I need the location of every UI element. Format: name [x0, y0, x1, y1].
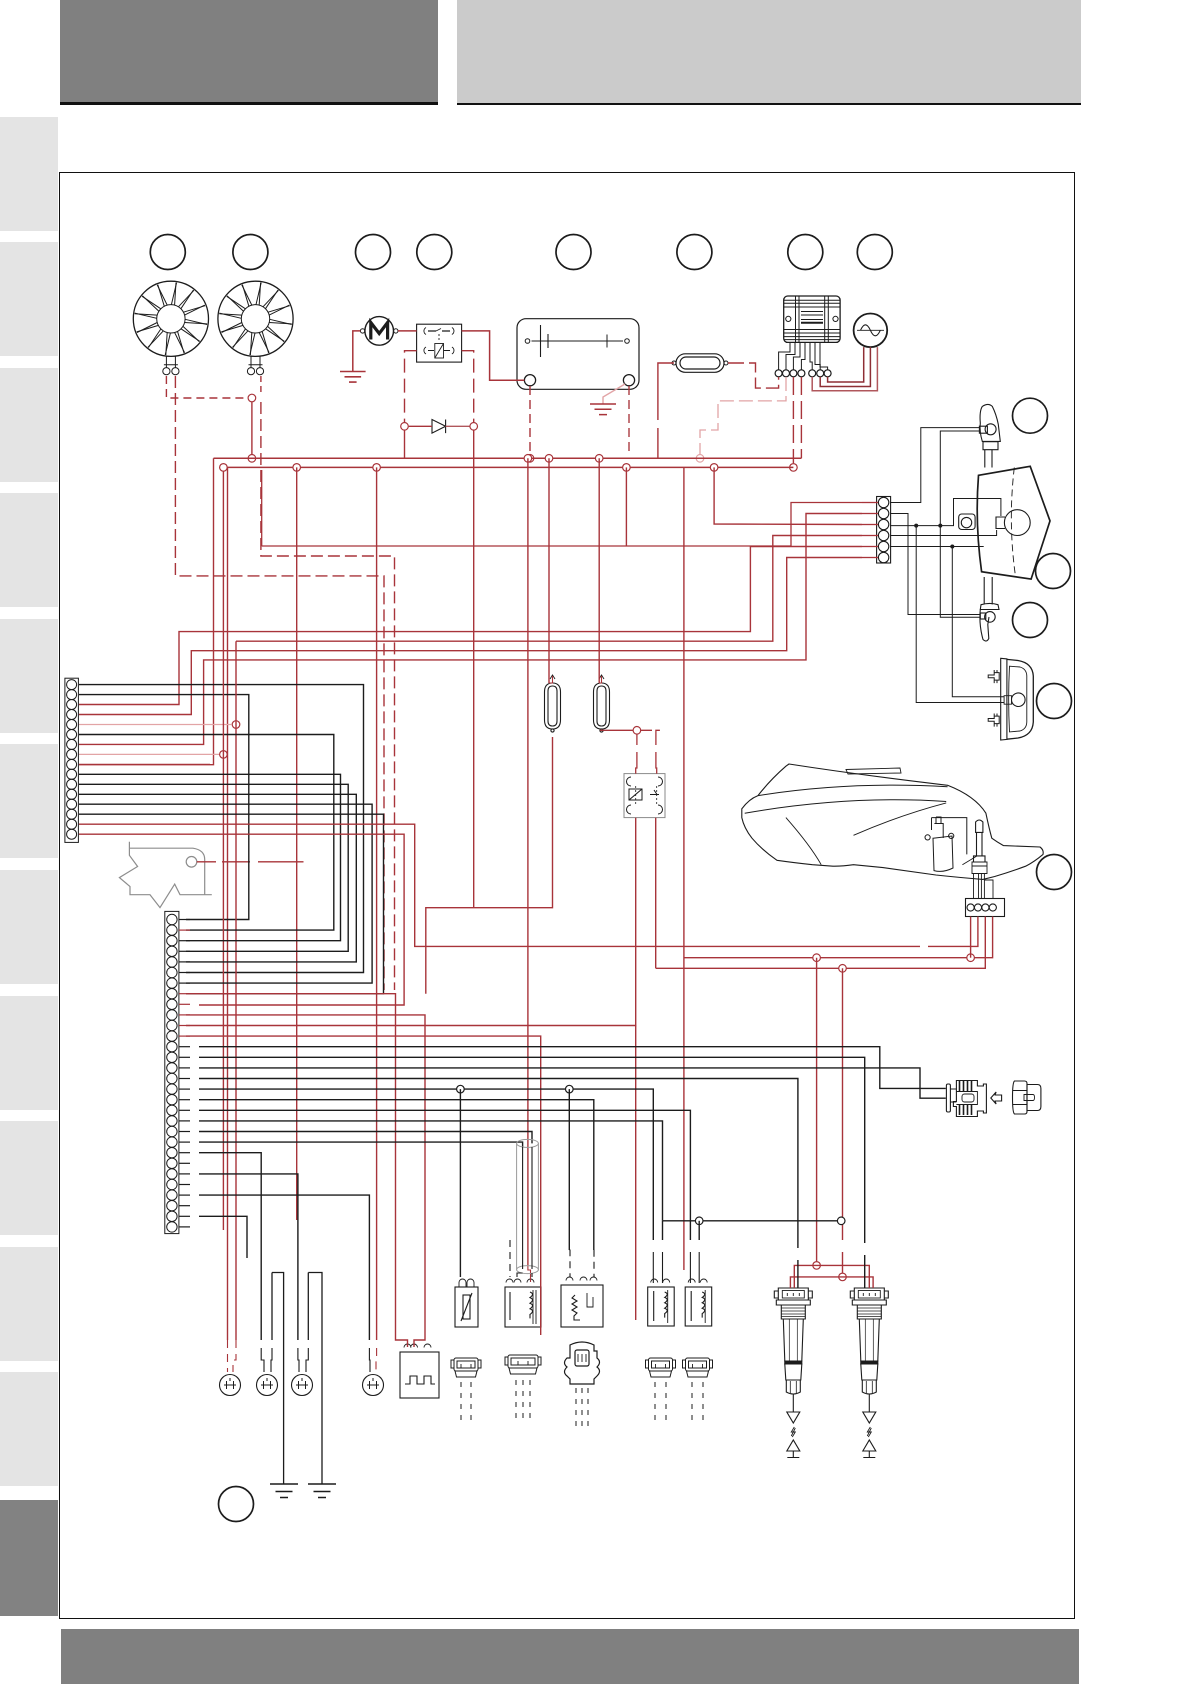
stub ECU pin 13 [179, 1046, 190, 1048]
wire coil2 left pin end [864, 1255, 866, 1288]
stub ECU pin 9 [179, 1003, 190, 1005]
wire ring4 b end red [375, 1348, 378, 1372]
junction bus A x528 [524, 455, 532, 463]
wire relay feed corner [656, 730, 660, 745]
wire alternator phase 3 [812, 347, 877, 391]
injector 1 [648, 1279, 675, 1326]
wire ECU to sensor C pin3 [199, 1100, 594, 1250]
wire pigtail dashed [522, 1380, 524, 1422]
wire relay to battery + [462, 331, 525, 380]
wire sensor B pin1 dash [509, 1240, 511, 1277]
wire tail light b [952, 547, 1004, 697]
stub ECU pin 5 [179, 961, 190, 963]
wire fan junction down [251, 402, 253, 455]
wire pigtail dashed [470, 1382, 472, 1424]
connector ECU 30-pin [165, 911, 179, 1233]
stub ECU pin 6 [179, 972, 190, 974]
wire fan2 supply stub [260, 376, 262, 394]
stub ECU pin 14 [179, 1056, 190, 1058]
wire staple 1 left to ring2 [271, 1273, 273, 1341]
junction front a [914, 524, 918, 528]
stub ECU pin 2 [179, 929, 190, 931]
wire pigtail dashed [587, 1388, 589, 1430]
stub ECU pin 28 [179, 1205, 190, 1207]
wire headlight bulb b [890, 530, 997, 536]
wire ECU pin12 down [186, 1036, 541, 1335]
pin regulator 2 [783, 370, 790, 377]
wire pigtail dashed [665, 1382, 667, 1424]
wire turn2 a [890, 514, 980, 615]
pin regulator 5 [809, 370, 816, 377]
wire 16pin pin13 to ECU [79, 804, 372, 983]
wire battery + down [529, 386, 531, 455]
connector lambda pigtail 2 [594, 675, 610, 732]
lamp position light [959, 514, 975, 530]
wire ring3 a end [298, 1348, 299, 1372]
stub 16pin pin9 [79, 763, 210, 765]
wire lambda2 to relay [601, 729, 652, 732]
wire fuel relay 1 to ECU pin11 [186, 818, 636, 1026]
wire relay feed a down [636, 734, 638, 745]
junction bus B x714 [710, 464, 718, 472]
wire regulator pins [779, 342, 828, 369]
junction bus A x549 [545, 455, 553, 463]
headlight assembly [977, 466, 1050, 579]
wire regulator pin2 [700, 377, 786, 455]
junction tank pin1 on y958 [967, 954, 975, 962]
junction fan supply [248, 394, 256, 402]
wire ECU to ring3 a [199, 1174, 298, 1340]
wire x817 to coil rail 1 [816, 958, 818, 1262]
stub ECU pin 17 [179, 1088, 190, 1090]
stub ECU pin 22 [179, 1141, 190, 1143]
wire pickup a in tube [522, 1147, 524, 1269]
wire fuse to regulator pin1 [728, 363, 779, 388]
wire x842 to coil rail 2b [842, 1252, 844, 1273]
stub ECU pin 4 [179, 950, 190, 952]
junction coil rail 1 [813, 1262, 821, 1270]
wire injector1 pin2 upper [662, 1221, 664, 1240]
wire relay feed a end [636, 752, 637, 774]
fuel pump assembly [925, 817, 967, 871]
connector plug B [505, 1355, 541, 1374]
wire sensor C pin3 dash [593, 1250, 595, 1277]
wire ECU to injector bus [199, 1121, 663, 1221]
connector ground ring 4 [363, 1375, 384, 1396]
junction black x569 [566, 1085, 574, 1093]
wire staple 1 right to ground [272, 1273, 284, 1485]
wire ECU to diagnostic a [199, 1047, 946, 1089]
node callout 7 [788, 235, 823, 270]
junction black x460 [457, 1085, 465, 1093]
wire injector2 pin2 upper [698, 1221, 700, 1240]
wire long vertical x684 lower [683, 990, 685, 1270]
wire injector1 pin1 end [652, 1252, 654, 1283]
wire vertical x549 to lambda 1 [548, 458, 550, 683]
wire ECU to coil1 right pin [199, 1079, 798, 1249]
stub ECU pin 25 [179, 1173, 190, 1175]
wire long vertical x236 [235, 641, 237, 1340]
wire 16pin pin10 to ECU [79, 774, 341, 940]
connector ground ring 3 [292, 1375, 313, 1396]
node callout 4 [417, 235, 452, 270]
wire fan1 supply [166, 376, 248, 398]
fuel level sender [962, 820, 993, 899]
junction regulator on bus B [790, 464, 798, 472]
motor M (starter motor) [360, 317, 398, 346]
stub lambda2 [599, 676, 601, 683]
node callout 3 [356, 235, 391, 270]
alternator (generator) [854, 314, 888, 348]
wire key switch [197, 861, 216, 863]
junction pin5 on x236 [232, 721, 240, 729]
wire long vertical x528 [527, 458, 529, 1265]
wire sensor C pin1 dash [568, 1250, 571, 1277]
wire motor to relay [398, 330, 417, 332]
wire fuel relay 2 down [655, 818, 657, 969]
wire relay 86 to diode [405, 351, 417, 423]
wire fuse left down [658, 363, 674, 420]
junction x223 on bus B [220, 464, 228, 472]
fuel tank [742, 764, 1043, 879]
injector 2 [685, 1279, 712, 1326]
junction x842 on y968 [839, 965, 847, 973]
wire pigtail dashed [702, 1382, 704, 1424]
ground (starter motor, red) [340, 372, 366, 383]
stub ECU pin 10 [179, 1014, 190, 1016]
wire staple 2 right to ground [308, 1273, 322, 1485]
wire ECU to pickup a [199, 1132, 532, 1144]
wire to diode [409, 425, 432, 427]
node callout 11 [1013, 603, 1048, 638]
wire 16pin pin2 to ECU [79, 695, 249, 920]
wire front connector stub [862, 524, 878, 526]
wire fan1 return [175, 376, 384, 990]
wire tail light a [916, 526, 1004, 703]
wire bus B to front connector pin3 [714, 467, 862, 524]
junction battery on bus A [526, 455, 534, 463]
wire turn2 b [940, 526, 980, 618]
wire x528 to sensor B pin3 [528, 1265, 531, 1282]
stub ECU pin 29 [179, 1215, 190, 1217]
stub y546 [261, 470, 263, 546]
wire headlight ground [890, 546, 984, 548]
stub ECU pin 1 [179, 919, 190, 921]
wire ECU to coil2 left pin [199, 1057, 865, 1243]
wire regulator pin3 down [792, 377, 794, 463]
node callout 9 [1013, 398, 1048, 433]
wire key switch c [258, 861, 304, 863]
junction black x841 [837, 1217, 845, 1225]
fan 2 (right radiator fan) [218, 281, 293, 375]
wire x474 long vertical [473, 467, 475, 907]
stub ECU pin 26 [179, 1184, 190, 1186]
node callout 13 [1037, 855, 1072, 890]
wire pickup to sensor B a [517, 1273, 523, 1277]
wire fan2 return [261, 402, 395, 990]
wire staple 1 left end [271, 1348, 272, 1372]
stub ECU pin 21 [179, 1131, 190, 1133]
ground (frame) [308, 1484, 336, 1498]
node callout 10 [1036, 554, 1071, 589]
junction pin8 on x223 [220, 751, 228, 759]
wire ring1 b end [233, 1340, 236, 1372]
wire battery - down [628, 386, 630, 454]
ignition coil 1 with spark plug gap [774, 1288, 812, 1458]
wire ring1 a end [227, 1340, 229, 1372]
diode fan relay [432, 420, 446, 434]
wire main red bus A [214, 457, 802, 459]
wire ECU pin8 to flasher [186, 994, 408, 1347]
junction bus A x599 [595, 455, 603, 463]
sensor C (temperature, zigzag resistor) [561, 1277, 603, 1327]
wire coil1 right pin end [797, 1260, 799, 1288]
wire lambda1 down [426, 737, 553, 994]
stub lambda1 [549, 676, 553, 683]
wire ECU to diagnostic b [199, 1068, 946, 1098]
ignition key symbol [119, 842, 211, 908]
wire long vertical x684 upper [683, 467, 685, 990]
wire regulator pin4 down [800, 377, 802, 458]
connector front harness 6-pin [877, 497, 891, 564]
wire y546 run [262, 545, 791, 547]
connector plug A [451, 1358, 481, 1377]
wire 16pin pin12 to ECU [79, 794, 356, 962]
wire bus A to 16pin pin9 [79, 458, 214, 764]
stub ECU pin 7 [179, 982, 190, 984]
wire to sensor C pin1 [568, 1089, 570, 1250]
wire key switch b [222, 861, 250, 863]
wire front connector stub [862, 535, 878, 537]
wire tank pin1 riser [970, 917, 972, 958]
connector plug D [646, 1358, 676, 1377]
wire pickup to sensor B b [531, 1273, 533, 1277]
wire pigtail dashed [529, 1380, 531, 1422]
relay fan (box with contacts) [417, 324, 462, 362]
node callout 14 [219, 1487, 254, 1522]
pin regulator 4 [798, 370, 805, 377]
wire staple 2 left to ring3 [307, 1273, 309, 1341]
wire injector2 pin1 end [689, 1252, 691, 1283]
wire diode down A [404, 431, 406, 459]
stub ECU pin 30 [179, 1226, 190, 1228]
wire front connector stub [862, 557, 878, 559]
wire front connector stub [862, 513, 878, 515]
regulator rectifier [784, 296, 840, 342]
cable sheath (pickup sensor) [517, 1139, 539, 1273]
wire ECU to injector1 pin1 [199, 1089, 653, 1240]
flasher unit (square wave) [400, 1344, 439, 1398]
junction bus B x377 [373, 464, 381, 472]
junction front c [950, 545, 954, 549]
pin regulator 7 [824, 370, 831, 377]
junction pink on bus A [696, 455, 704, 463]
stub ECU pin 19 [179, 1109, 190, 1111]
wire front connector pin1 feed [791, 503, 862, 547]
stub ECU pin 23 [179, 1152, 190, 1154]
connector plug C (round) [565, 1342, 600, 1384]
fuse main (30A) [672, 354, 728, 373]
connector ground ring 2 [257, 1375, 278, 1396]
lamp turn signal front [979, 404, 1000, 467]
battery [517, 319, 639, 390]
wire relay feed b end [655, 752, 658, 774]
junction diode anode [401, 423, 409, 431]
wire injector2 pin2 end [698, 1252, 700, 1283]
wire 16pin pin5 pink [79, 724, 231, 726]
connector plug E [683, 1358, 713, 1377]
wire 16pin pin11 to ECU [79, 784, 348, 951]
icon arrow [991, 1092, 1002, 1104]
junction on main red bus A [248, 455, 256, 463]
stub ECU pin 27 [179, 1194, 190, 1196]
junction front b [938, 524, 942, 528]
stub ECU pin 20 [179, 1120, 190, 1122]
wire 16pin pin16 to ECU [79, 834, 404, 1005]
wire fuse left down b [657, 428, 659, 458]
wire 16pin pin4 L3 [79, 558, 862, 715]
junction bus B x297 [293, 464, 301, 472]
wire staple 2 left end [306, 1348, 308, 1372]
pin regulator 3 [790, 370, 797, 377]
junction bus B x626 [623, 464, 631, 472]
sensor A (resistor slash) [455, 1279, 478, 1327]
ground (battery, red) [590, 404, 616, 415]
wire long vertical x227 [227, 467, 229, 1340]
wire 16pin pin1 to ECU [79, 685, 364, 973]
connector ground ring 1 [220, 1375, 241, 1396]
wire pigtail dashed [515, 1380, 517, 1422]
wire from diode [446, 425, 470, 427]
sensor B (pickup coil) [505, 1279, 541, 1327]
wire pigtail dashed [460, 1382, 462, 1424]
wire turn1 b [940, 431, 979, 526]
wire injector1 pin2 end [662, 1252, 664, 1283]
wire coil rail 1 [794, 1265, 869, 1288]
stub ECU pin 12 [179, 1035, 190, 1037]
connector dashboard 16-pin [65, 678, 79, 842]
junction coil rail 2 [839, 1273, 847, 1281]
wire diode down B [473, 431, 475, 468]
node callout 12 [1037, 684, 1072, 719]
wire pigtail dashed [581, 1388, 583, 1430]
wire motor to ground [353, 331, 361, 372]
wire 16pin pin3 L1 [79, 547, 862, 705]
wire ECU to ring4 a [199, 1195, 369, 1340]
node callout 6 [677, 235, 712, 270]
wire vertical x599 to lambda 2 [598, 458, 600, 683]
wire pigtail dashed [654, 1382, 656, 1424]
connector lambda pigtail 1 [545, 675, 561, 732]
ground (engine) [270, 1484, 298, 1498]
wire long vertical x377 [376, 467, 378, 1340]
connector diagnostic [946, 1081, 986, 1117]
junction black x699 [695, 1217, 703, 1225]
node callout 5 [556, 235, 591, 270]
wire pigtail dashed [575, 1388, 577, 1430]
wire ring2 a end [261, 1348, 264, 1372]
relay fuel pump / injection [624, 774, 665, 818]
wire y958 to tank pin4 [684, 917, 993, 958]
wire y968 to tank pin3 [656, 917, 986, 969]
wire L2 to front [236, 536, 862, 642]
wire injector bus horizontal [663, 1220, 842, 1222]
ignition coil 2 with spark plug gap [850, 1288, 888, 1458]
wire long vertical x223 [222, 467, 224, 1230]
wire alternator phase 1 [828, 347, 864, 382]
wire alternator phase 2 [820, 347, 870, 386]
stub ECU pin 24 [179, 1162, 190, 1164]
junction diode cathode [470, 423, 478, 431]
wire tank pin2 [928, 917, 978, 947]
stub ECU pin 8 [179, 993, 190, 995]
bulb headlight [996, 510, 1030, 536]
wire front connector stub [862, 502, 878, 504]
wire main red bus B [228, 466, 794, 468]
wire ECU to ring2 a [199, 1153, 261, 1340]
wire ECU to injector2 pin1 [199, 1110, 690, 1240]
connector fuel pump 4-pin [966, 899, 1005, 917]
wire 16pin pin8 pink [79, 753, 219, 755]
wire 16pin pin14 to ECU [79, 814, 384, 994]
node callout 1 [150, 235, 185, 270]
node callout 2 [233, 235, 268, 270]
pin regulator 6 [817, 370, 824, 377]
wire front connector stub [862, 546, 878, 548]
wire 16pin pin15 to tank [79, 824, 920, 946]
stub ECU pin 16 [179, 1078, 190, 1080]
connector diagnostic cap [1013, 1081, 1041, 1114]
fan 1 (left radiator fan) [133, 281, 208, 375]
tail light [988, 658, 1033, 740]
wire coil rail 2 [790, 1277, 873, 1288]
wire ring4 a end [368, 1348, 371, 1372]
wire ECU pin10 to flasher [186, 1015, 425, 1347]
pin regulator 1 [775, 370, 782, 377]
node callout 8 [857, 235, 892, 270]
wire turn1 a [890, 428, 979, 503]
junction relay feed [633, 727, 641, 735]
wire x842 to coil rail 2 [842, 968, 844, 1240]
wire relay 85 to diode [462, 351, 474, 423]
wire ECU to pickup b [199, 1142, 523, 1147]
stub ECU pin 18 [179, 1099, 190, 1101]
stub ECU pin 3 [179, 940, 190, 942]
wire battery to ground [603, 384, 625, 404]
wire headlight bulb a [890, 499, 1001, 526]
lamp turn signal front 2 [980, 577, 999, 641]
junction x817 on y958 [813, 954, 821, 962]
wire 16pin pin6 to ECU [79, 735, 334, 931]
wire vertical x626 short [625, 467, 627, 546]
wire to sensor A [459, 1089, 461, 1277]
wire fuel relay 1 tail [635, 1026, 637, 1321]
wire pickup b in tube [531, 1147, 533, 1269]
wire long vertical x297 [296, 467, 298, 1220]
stub ECU pin 15 [179, 1067, 190, 1069]
wire ECU last pin [199, 1216, 247, 1258]
wire pigtail dashed [691, 1382, 693, 1424]
stub ECU pin 11 [179, 1025, 190, 1027]
wire 16pin pin7 L4 [79, 514, 862, 745]
